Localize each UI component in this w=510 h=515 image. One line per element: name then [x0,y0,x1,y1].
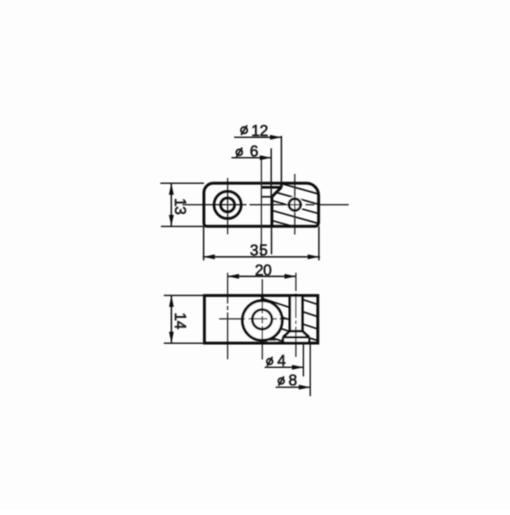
bore step edge thin [261,196,272,198]
top view: section hatching [270,170,320,234]
label ø8 [278,376,284,385]
bore ø12 knockout front view [242,301,282,341]
svg-text:4: 4 [277,353,286,370]
bore center line vertical front view [261,279,263,359]
extension line ø6 [270,148,272,197]
arrow 13 top [169,183,174,194]
svg-text:14: 14 [171,312,188,329]
hole ø4 wall right front view [301,296,304,332]
arrow ø6 [260,155,271,160]
svg-text:12: 12 [251,123,268,140]
countersink wall left [282,337,284,343]
dimension ø6 leader [231,157,271,159]
countersink cone left [283,331,290,337]
svg-text:20: 20 [255,262,272,279]
arrow 13 bottom [169,215,174,226]
bore ø6 circle front view [252,310,272,330]
svg-text:35: 35 [250,242,268,259]
extension line ø8 [309,343,311,396]
arrow ø12 [270,135,281,140]
extension line ø12 [280,136,282,187]
center line left hole front view [227,273,229,360]
dimension ø8 leader [276,386,311,388]
hole ø4 wall left front view [288,296,291,332]
section boundary bottom segment front view [261,340,264,343]
hole ø4 circle top view [289,199,301,211]
label ø6 [236,148,242,158]
label ø12 [241,125,247,135]
dimension 13: extension lines [160,182,204,184]
arrow ø4 [292,365,303,370]
svg-text:13: 13 [171,198,188,215]
extension line ø6 below part [271,226,273,254]
svg-text:8: 8 [289,373,297,390]
bore center line top view [260,158,262,257]
extension line ø4 [302,343,304,376]
counterbored hole, outer circle top view [214,191,241,218]
section boundary top segment front view [261,296,264,301]
center line horizontal front view [219,318,289,320]
countersunk hole knockout front view [282,294,309,342]
label ø4 [267,357,273,366]
section break diagonal [272,187,282,197]
center line horizontal, top view [182,204,348,206]
countersink ø8 edge line [283,336,309,338]
countersink cone right [302,331,309,337]
arrow 14 bottom [169,332,174,343]
center line vertical, left hole top view [227,178,229,234]
arrow ø8 [299,385,310,390]
counterbored hole, inner circle top view [221,198,235,212]
arrow 14 top [169,296,174,307]
front view section hatching [261,286,319,354]
arrow 35 right [308,254,319,259]
arrow 20 left [228,274,239,279]
bore step edge thick [261,186,281,189]
bore ø12 circle front view [242,301,282,341]
center line countersunk hole front view [295,273,297,357]
dimension ø12 leader [234,136,281,138]
countersink shoulder line [290,330,303,333]
edge segment below bore [269,339,276,341]
top view outline [204,183,319,226]
section boundary vertical [270,197,273,227]
dimension 14: extension lines [164,294,205,296]
countersink wall right [308,337,310,343]
dimension 13 line [170,183,172,226]
dimension 20 line [228,275,296,277]
dimension 14 line [170,295,172,343]
dimension 35: extension lines [203,226,205,260]
svg-text:6: 6 [250,144,258,161]
hole ø4 knockout in top view [287,196,303,212]
white wedge below bore [268,341,276,343]
dimension ø4 leader [265,366,304,368]
section edge at ø12 [280,183,283,187]
center line vertical, small hole top view [294,174,296,235]
front view outline [204,296,317,344]
arrow 20 right [285,274,296,279]
arrow 35 left [203,254,214,259]
dimension 35 line [203,256,320,258]
